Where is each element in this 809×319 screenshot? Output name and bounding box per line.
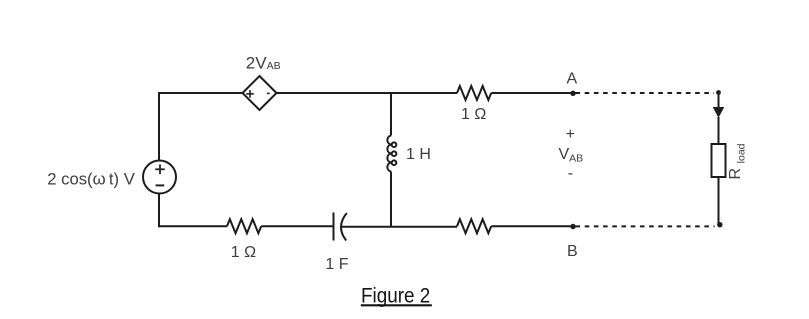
svg-text:Figure 2: Figure 2 [361,284,430,307]
svg-text:1 F: 1 F [325,256,348,273]
svg-text:+: + [566,126,575,143]
svg-text:-: - [568,165,573,182]
svg-text:A: A [567,71,578,88]
svg-text:B: B [567,243,578,260]
svg-text:1 Ω: 1 Ω [461,106,486,123]
svg-text:2 cos(ω t) V: 2 cos(ω t) V [47,170,135,189]
svg-text:1 H: 1 H [406,146,431,163]
svg-text:1 Ω: 1 Ω [231,244,256,261]
